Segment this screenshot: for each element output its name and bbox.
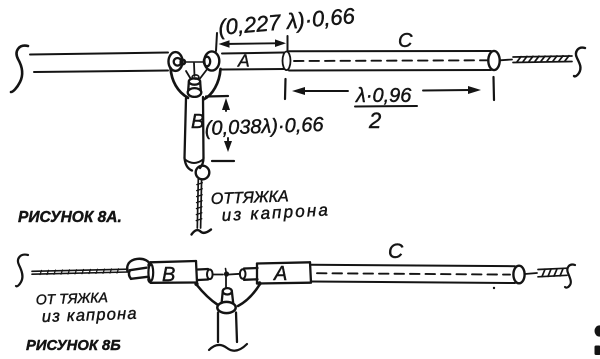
svg-text:λ·0,96: λ·0,96 (355, 85, 412, 107)
left break symbol (S-curve) fig 8A (11, 46, 28, 92)
right guy rope fig 8B (538, 268, 567, 277)
svg-text:A: A (237, 51, 250, 71)
insulator cylinder fig 8A (188, 75, 202, 97)
edge artifact marks right margin (595, 325, 600, 355)
tube B (vertical) fig 8A (185, 97, 204, 171)
tube C fig 8A (283, 51, 492, 71)
dimension ticks and double arrow fig 8A top (216, 33, 288, 51)
left break symbol fig 8B (16, 255, 28, 287)
svg-text:B: B (191, 111, 204, 133)
right break symbol fig 8A (574, 48, 585, 77)
guy rope fig 8A (196, 179, 202, 228)
bolt axis wire fig 8A (186, 61, 203, 63)
mast tube fig 8B (218, 313, 237, 343)
right break symbol fig 8B (565, 265, 575, 288)
svg-text:РИСУНОК 8Б: РИСУНОК 8Б (26, 338, 121, 354)
svg-text:из капрона: из капрона (42, 305, 138, 326)
svg-text:B: B (162, 264, 175, 286)
tube B fig 8B (148, 261, 197, 283)
tube C fig 8B (311, 265, 515, 283)
junction node fig 8B (224, 271, 229, 276)
guy rope right fig 8A (513, 56, 572, 63)
eye ring at tube B bottom fig 8A (196, 166, 210, 180)
tube A fig 8A (222, 53, 284, 70)
tube C end cap fig 8A (488, 51, 499, 70)
svg-text:A: A (273, 263, 287, 285)
vertical dimension for B fig 8A (206, 96, 234, 161)
svg-text:C: C (398, 30, 413, 52)
feed wire left fig 8B (213, 274, 223, 276)
rope end tilde fig 8A (192, 230, 212, 235)
tube A fig 8B (257, 262, 311, 283)
tube C end cap fig 8B (513, 266, 524, 284)
svg-text:РИСУНОК 8А.: РИСУНОК 8А. (18, 209, 122, 226)
svg-text:(0,227 λ)·0,66: (0,227 λ)·0,66 (217, 3, 356, 40)
wire stub after cap fig 8A (500, 59, 512, 62)
dimension lambda*0,96/2 fig 8A (285, 77, 494, 100)
left clamp ring fig 8A (169, 52, 186, 71)
svg-text:C: C (388, 240, 404, 263)
sleeve connector fig 8B (198, 269, 213, 280)
svg-text:(0,038λ)·0,66: (0,038λ)·0,66 (204, 114, 324, 140)
yoke bracket fig 8B (194, 281, 261, 306)
left guy rope fig 8B (32, 269, 128, 275)
left arm tube fig 8A (30, 53, 168, 73)
yoke bracket fig 8A (171, 68, 221, 99)
hanger wire fig 8A (193, 63, 196, 76)
mast break tilde fig 8B (209, 344, 247, 351)
right sleeve connector fig 8B (240, 268, 258, 280)
feed wire down fig 8B (225, 276, 227, 288)
svg-text:ОТ ТЯЖКА: ОТ ТЯЖКА (36, 289, 109, 308)
right clamp ring fig 8A (204, 51, 220, 70)
svg-text:2: 2 (368, 108, 381, 133)
feed wire right fig 8B (229, 273, 240, 276)
wire stub fig 8B (525, 273, 537, 274)
eye thimble fig 8B (127, 259, 150, 279)
insulator cylinder fig 8B (217, 288, 235, 313)
